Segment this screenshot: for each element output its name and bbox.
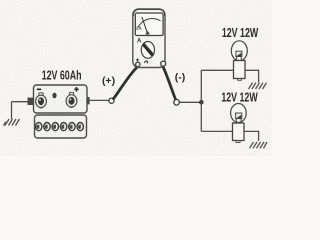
- battery tab negative: [28, 98, 35, 105]
- lamp L1 filament: [236, 51, 242, 60]
- lamp L1 base nub: [238, 79, 242, 81]
- battery terminal negative: [36, 93, 47, 108]
- node (-): [174, 100, 180, 106]
- lamp L1 base: [234, 61, 246, 79]
- battery vent oval: [52, 93, 56, 99]
- wire battery + to node (+): [90, 99, 110, 101]
- paper speckle: [0, 0, 272, 156]
- multimeter display: [135, 13, 163, 36]
- wire to lamp L1: [201, 69, 233, 71]
- wire lamp L2 to ground: [244, 131, 259, 141]
- junction dot: [199, 100, 204, 105]
- battery B1 body: [34, 85, 88, 138]
- test lead negative: [163, 67, 176, 100]
- battery terminal positive: [66, 92, 77, 107]
- lamp L2 base nub: [236, 141, 240, 143]
- meter terminal + mark: [136, 59, 139, 62]
- lamp L1 bulb: [231, 41, 247, 61]
- meter scale arc: [138, 19, 161, 28]
- meter pivot: [145, 31, 149, 34]
- battery plus label: [74, 87, 78, 91]
- vertical bus wire: [200, 70, 202, 131]
- node (+): [109, 98, 114, 103]
- meter terminal +: [136, 62, 140, 66]
- lamp L2 base: [233, 123, 245, 141]
- selector dial: [141, 42, 154, 59]
- multimeter U1 body: [133, 9, 165, 68]
- wire to lamp L2: [201, 130, 232, 132]
- wire ground to battery - terminal: [12, 101, 29, 103]
- meter terminal A mark: [144, 61, 148, 63]
- wire lamp L1 to ground: [245, 70, 259, 82]
- lamp L2 filament: [236, 113, 242, 123]
- meter needle: [142, 17, 148, 34]
- wire node (-) to junction: [180, 101, 201, 103]
- lamp L2 bulb: [231, 104, 247, 123]
- ground (lamp L2): [250, 142, 268, 148]
- battery tab positive: [83, 97, 90, 104]
- ground (lamp L1): [249, 83, 267, 89]
- test lead positive: [114, 68, 137, 99]
- meter terminal A: [161, 61, 166, 66]
- selector knob: [144, 45, 152, 54]
- ground (battery negative, left): [4, 102, 20, 126]
- battery cell caps: [36, 123, 84, 131]
- battery minus label: [37, 88, 41, 90]
